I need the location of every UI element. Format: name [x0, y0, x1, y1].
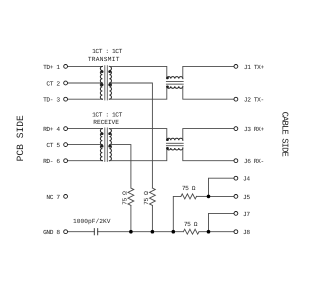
terminal J4: [234, 176, 238, 180]
terminal pin 3: [64, 97, 68, 101]
svg-text:RD+ 4: RD+ 4: [43, 126, 60, 133]
terminal J1: [234, 65, 238, 69]
transformer T1 right winding: [109, 66, 111, 99]
transformer T1 TRANSMIT left winding: [100, 66, 102, 99]
wire pin5 CT to T2 left winding center tap: [68, 144, 103, 146]
wire node J45 to J4: [209, 178, 235, 196]
transformer T2 right winding: [109, 129, 111, 161]
terminal pin 6: [64, 159, 68, 163]
wire node J45 to J5: [209, 195, 235, 197]
terminal pin 7: [64, 195, 68, 199]
svg-text:TD+ 1: TD+ 1: [43, 64, 60, 71]
wire T1 right center tap down to resistor R2: [109, 83, 152, 188]
wire bus node to resistor R3: [173, 196, 181, 231]
phase dot T1 left top: [101, 70, 104, 73]
svg-text:CABLE SIDE: CABLE SIDE: [280, 112, 290, 157]
wire pin1 TD+ to T1 left winding top: [68, 65, 103, 67]
svg-text:J7: J7: [243, 211, 250, 218]
wire T2 right winding top to choke L2: [109, 129, 166, 141]
terminal J3: [234, 127, 238, 131]
svg-text:CT 5: CT 5: [46, 142, 60, 149]
svg-text:J5: J5: [243, 194, 250, 201]
svg-text:GND 8: GND 8: [43, 229, 60, 236]
wire T2 right winding bottom to choke L2 bottom: [109, 148, 166, 161]
phase dot T1 left mid: [101, 83, 104, 86]
wire pin4 RD+ to T2 left winding top: [68, 128, 103, 130]
phase dot T2 left mid: [101, 145, 104, 148]
junction node J78: [207, 230, 211, 234]
svg-text:TRANSMIT: TRANSMIT: [88, 56, 120, 63]
wire resistor R2 to bus: [151, 205, 153, 231]
junction node R3-bus: [172, 230, 176, 234]
svg-text:J2 TX-: J2 TX-: [244, 97, 264, 104]
choke L2 bottom winding: [167, 148, 183, 150]
ground bus wire: [98, 231, 184, 233]
phase dot T2 right mid: [108, 145, 111, 148]
wire choke L2 bottom to J6: [183, 148, 234, 161]
wire pin3 TD- to T1 left winding bottom: [68, 98, 103, 100]
wire resistor R4 to node J78: [199, 231, 234, 233]
wire resistor R1 to bus: [130, 205, 132, 231]
junction node R1-bus: [129, 230, 133, 234]
phase dot L2 top winding: [166, 138, 169, 141]
wire pin6 RD- to T2 left winding bottom: [68, 160, 103, 162]
wire pin8 GND to capacitor C1: [68, 231, 95, 233]
phase dot T1 right mid: [108, 83, 111, 86]
phase dot T2 right top: [108, 132, 111, 135]
wire T1 right winding bottom to choke L1 bottom: [109, 86, 166, 99]
phase dot T1 right top: [108, 70, 111, 73]
choke L1 core: [166, 82, 183, 85]
wire choke L1 bottom to J2: [183, 86, 234, 99]
choke L1 top winding: [167, 77, 183, 79]
terminal J6: [234, 159, 238, 163]
wire pin2 CT to T1 left winding center tap: [68, 82, 103, 84]
terminal J8: [234, 230, 238, 234]
terminal pin 2: [64, 81, 68, 85]
phase dot L1 bottom winding: [166, 85, 169, 88]
wire choke L2 top to J3: [183, 129, 234, 141]
transformer T2 RECEIVE left winding: [100, 129, 102, 161]
terminal J2: [234, 97, 238, 101]
choke L2 core: [166, 143, 183, 146]
svg-text:75 Ω: 75 Ω: [182, 185, 196, 192]
choke L1 bottom winding: [167, 86, 183, 88]
transformer T2 core: [105, 128, 107, 162]
transformer T1 core: [105, 66, 107, 100]
wire T2 right center tap down to resistor R1: [109, 145, 130, 188]
svg-text:1CT : 1CT: 1CT : 1CT: [92, 48, 123, 55]
svg-text:PCB SIDE: PCB SIDE: [15, 115, 26, 161]
junction node J45: [207, 195, 211, 199]
svg-text:TD- 3: TD- 3: [43, 97, 60, 104]
phase dot L2 bottom winding: [166, 147, 169, 150]
svg-text:CT 2: CT 2: [46, 81, 60, 88]
phase dot T2 left top: [101, 132, 104, 135]
wire resistor R3 to node J45: [197, 195, 209, 197]
svg-text:J4: J4: [243, 176, 250, 183]
svg-text:1000pF/2KV: 1000pF/2KV: [73, 218, 111, 225]
svg-text:1CT : 1CT: 1CT : 1CT: [92, 112, 123, 119]
svg-text:J3 RX+: J3 RX+: [244, 126, 265, 133]
resistor R3 75 ohm horizontal: [181, 194, 197, 199]
svg-text:RD- 6: RD- 6: [43, 158, 60, 165]
resistor R4 75 ohm horizontal on bus: [183, 229, 199, 234]
wire node J78 to J7: [209, 213, 235, 231]
junction node R2-bus: [151, 230, 155, 234]
terminal pin 4: [64, 127, 68, 131]
wire choke L1 top to J1: [183, 66, 234, 78]
svg-text:75 Ω: 75 Ω: [122, 191, 129, 205]
svg-text:J8: J8: [243, 229, 250, 236]
phase dot L1 top winding: [166, 77, 169, 80]
capacitor C1 1000pF/2KV plates: [94, 229, 97, 235]
svg-text:J1 TX+: J1 TX+: [244, 64, 265, 71]
terminal J7: [234, 212, 238, 216]
resistor R1 75 ohm vertical: [128, 188, 134, 205]
svg-text:RECEIVE: RECEIVE: [93, 119, 119, 126]
svg-text:75 Ω: 75 Ω: [184, 221, 198, 228]
svg-text:NC 7: NC 7: [46, 194, 60, 201]
terminal pin 1: [64, 65, 68, 69]
choke L2 top winding: [167, 138, 183, 140]
svg-text:75 Ω: 75 Ω: [143, 191, 150, 205]
svg-text:J6 RX-: J6 RX-: [244, 158, 264, 165]
terminal J5: [234, 195, 238, 199]
wire T1 right winding top to choke L1: [109, 66, 166, 78]
resistor R2 75 ohm vertical: [149, 188, 155, 205]
terminal pin 5: [64, 143, 68, 147]
terminal pin 8: [64, 230, 68, 234]
